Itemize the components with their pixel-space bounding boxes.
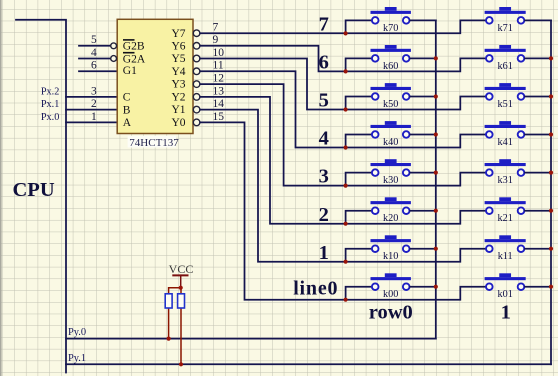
svg-text:k71: k71 [498, 23, 513, 34]
svg-text:74HCT137: 74HCT137 [129, 137, 179, 149]
pin name Y5 with inversion bubble [171, 53, 199, 65]
svg-text:row0: row0 [369, 301, 413, 323]
pin number 6 [91, 60, 97, 72]
junction k61 / column 1 [549, 56, 553, 60]
node label 4 [319, 128, 329, 150]
push button k61 [485, 45, 526, 72]
pin number 15 [213, 111, 225, 123]
wire CPU to pin 3 [66, 96, 118, 98]
svg-text:Px.0: Px.0 [41, 112, 59, 123]
junction k50 / column row0 [434, 94, 438, 98]
svg-text:Y6: Y6 [171, 40, 185, 52]
pin number 10 [213, 47, 225, 59]
pin name G1 (pin 6) [123, 65, 137, 77]
wire branch to k00 left terminal [346, 287, 372, 300]
wire Py.0 [66, 338, 436, 340]
junction row 3 branch [344, 184, 348, 188]
svg-text:5: 5 [91, 34, 97, 46]
pin name Y6 with inversion bubble [171, 40, 199, 52]
junction row 1 branch [344, 260, 348, 264]
svg-text:3: 3 [319, 166, 329, 188]
pin number 9 [213, 34, 219, 46]
svg-text:Y4: Y4 [171, 66, 185, 78]
svg-text:7: 7 [319, 14, 329, 36]
svg-text:k60: k60 [383, 61, 398, 72]
node label 6 [319, 52, 329, 74]
wire net row line0 from Y0 to keys [200, 122, 485, 299]
junction k10 / column row0 [434, 247, 438, 251]
pin name Y3 with inversion bubble [171, 79, 199, 91]
svg-text:Y5: Y5 [171, 53, 185, 65]
wire column row0 down to Py.0 [435, 20, 437, 338]
wire k41 right terminal to column 1 [525, 134, 551, 136]
net label Py.1 [68, 353, 86, 364]
node label 2 [319, 204, 329, 226]
svg-text:3: 3 [91, 85, 97, 97]
push button k20 [371, 197, 411, 224]
pin name C (pin 3) [123, 92, 131, 104]
svg-text:1: 1 [319, 242, 329, 264]
junction k00 / column row0 [434, 285, 438, 289]
wire branch to k20 left terminal [346, 211, 372, 224]
svg-text:Y3: Y3 [171, 79, 185, 91]
svg-text:k21: k21 [498, 213, 513, 224]
push button k50 [371, 83, 411, 110]
svg-text:line0: line0 [293, 278, 338, 300]
wire net row 4 from Y4 to keys [200, 71, 485, 147]
push button k71 [485, 7, 526, 34]
wire CPU to pin 1 [66, 121, 118, 123]
wire branch to k50 left terminal [346, 97, 372, 110]
svg-text:k10: k10 [383, 251, 398, 262]
push button k21 [485, 197, 526, 224]
junction k31 / column 1 [549, 171, 553, 175]
pin number 7 [213, 22, 219, 34]
junction row 7 branch [344, 31, 348, 35]
wire k10 right terminal to column row0 [410, 248, 436, 250]
svg-text:11: 11 [213, 60, 224, 72]
wire pin 4 stub [79, 58, 111, 60]
push button k41 [485, 121, 526, 148]
svg-text:Y0: Y0 [171, 117, 185, 129]
CPU label [13, 179, 55, 201]
push button k60 [371, 45, 411, 72]
wire net row 1 from Y1 to keys [200, 110, 485, 262]
push button k10 [371, 235, 411, 262]
pin number 3 [91, 85, 97, 97]
svg-text:Py.0: Py.0 [68, 327, 86, 338]
pin number 13 [213, 85, 225, 97]
wire CPU to pin 2 [66, 109, 118, 111]
svg-text:4: 4 [91, 47, 97, 59]
wire k61 right terminal to column 1 [525, 57, 551, 59]
part value 74HCT137 [128, 136, 180, 149]
pin name Y7 with inversion bubble [171, 28, 199, 40]
push button k01 [485, 273, 526, 300]
svg-text:k70: k70 [383, 23, 398, 34]
svg-text:15: 15 [213, 111, 225, 123]
wire k31 right terminal to column 1 [525, 172, 551, 174]
svg-text:G1: G1 [123, 65, 137, 77]
pin number 11 [213, 60, 224, 72]
svg-text:CPU: CPU [13, 179, 55, 201]
svg-text:k41: k41 [498, 137, 513, 148]
svg-text:5: 5 [319, 90, 329, 112]
svg-text:k31: k31 [498, 175, 513, 186]
wire k50 right terminal to column row0 [410, 96, 436, 98]
resistor R1 (pull-up to Py.0) [165, 294, 172, 339]
pin name A (pin 1) [123, 117, 132, 129]
pin number 5 [91, 34, 97, 46]
svg-text:A: A [123, 117, 132, 129]
svg-text:G2A: G2A [123, 53, 146, 65]
wire k40 right terminal to column row0 [410, 134, 436, 136]
wire branch to k30 left terminal [346, 173, 372, 186]
junction k30 / column row0 [434, 171, 438, 175]
svg-text:4: 4 [319, 128, 329, 150]
svg-text:k51: k51 [498, 99, 513, 110]
wire branch to k10 left terminal [346, 249, 372, 262]
wire VCC junction to left resistor [169, 288, 181, 294]
junction row 6 branch [344, 69, 348, 73]
junction k40 / column row0 [434, 132, 438, 136]
svg-text:G2B: G2B [123, 41, 145, 53]
svg-text:13: 13 [213, 85, 225, 97]
pin name Y2 with inversion bubble [171, 92, 199, 104]
junction k01 / column 1 [549, 285, 553, 289]
wire k21 right terminal to column 1 [525, 210, 551, 212]
pin name G2A with inversion bubble (pin 4) [111, 53, 146, 66]
wire k70 right terminal to column row0 [410, 19, 436, 21]
svg-text:k11: k11 [498, 251, 513, 262]
column label row0 [369, 301, 413, 323]
junction k41 / column 1 [549, 132, 553, 136]
svg-text:2: 2 [319, 204, 329, 226]
wire net row 7 from Y7 to keys [200, 20, 485, 33]
svg-text:B: B [123, 104, 131, 116]
push button k70 [371, 7, 411, 34]
wire k11 right terminal to column 1 [525, 248, 551, 250]
junction row 5 branch [344, 107, 348, 111]
junction k51 / column 1 [549, 94, 553, 98]
svg-text:C: C [123, 92, 131, 104]
pin name Y0 with inversion bubble [171, 117, 199, 129]
wire branch to k40 left terminal [346, 135, 372, 148]
resistor R2 (pull-up to Py.1) [178, 288, 185, 365]
svg-text:k40: k40 [383, 137, 398, 148]
svg-text:7: 7 [213, 22, 219, 34]
wire k20 right terminal to column row0 [410, 210, 436, 212]
svg-text:6: 6 [91, 60, 97, 72]
wire k71 right terminal to column 1 [525, 19, 551, 21]
pin number 4 [91, 47, 97, 59]
wire net row 5 from Y5 to keys [200, 59, 485, 110]
svg-text:k61: k61 [498, 61, 513, 72]
svg-text:10: 10 [213, 47, 225, 59]
pin number 12 [213, 73, 225, 85]
push button k00 [371, 273, 411, 300]
svg-text:6: 6 [319, 52, 329, 74]
push button k11 [485, 235, 526, 262]
junction R2 / Py.1 [179, 362, 183, 366]
pin name G2B with inversion bubble (pin 5) [111, 40, 145, 53]
node label 7 [319, 14, 329, 36]
junction k20 / column row0 [434, 209, 438, 213]
node label 3 [319, 166, 329, 188]
junction k11 / column 1 [549, 247, 553, 251]
svg-text:Px.1: Px.1 [41, 99, 59, 110]
wire k01 right terminal to column 1 [525, 286, 551, 288]
power symbol VCC [169, 262, 194, 288]
CPU block outline (wire) [16, 20, 66, 373]
junction VCC / resistors [179, 286, 183, 290]
svg-text:9: 9 [213, 34, 219, 46]
wire net row 6 from Y6 to keys [200, 46, 485, 72]
svg-text:k01: k01 [498, 289, 513, 300]
svg-text:Y1: Y1 [171, 104, 185, 116]
svg-text:k00: k00 [383, 289, 398, 300]
svg-text:1: 1 [91, 111, 97, 123]
svg-text:k30: k30 [383, 175, 398, 186]
svg-text:2: 2 [91, 98, 97, 110]
push button k30 [371, 159, 411, 186]
wire k51 right terminal to column 1 [525, 96, 551, 98]
svg-text:VCC: VCC [169, 262, 194, 276]
svg-text:Py.1: Py.1 [68, 353, 86, 364]
junction row line0 branch [344, 298, 348, 302]
svg-text:k50: k50 [383, 99, 398, 110]
wire net row 2 from Y2 to keys [200, 97, 485, 224]
wire Py.1 [66, 363, 551, 365]
node label 5 [319, 90, 329, 112]
pin number 14 [213, 98, 225, 110]
wire k60 right terminal to column row0 [410, 57, 436, 59]
svg-text:Y2: Y2 [171, 92, 185, 104]
wire net row 3 from Y3 to keys [200, 84, 485, 186]
net label Px.1 [41, 99, 59, 110]
net label Px.0 [41, 112, 59, 123]
wire pin 5 stub [79, 45, 111, 47]
net label Px.2 [41, 86, 59, 97]
pin name B (pin 2) [123, 104, 131, 116]
junction row 2 branch [344, 222, 348, 226]
wire branch to k70 left terminal [346, 20, 372, 33]
push button k51 [485, 83, 526, 110]
wire pin 6 stub [79, 70, 118, 72]
junction R1 / Py.0 [167, 337, 171, 341]
svg-text:Px.2: Px.2 [41, 86, 59, 97]
wire k30 right terminal to column row0 [410, 172, 436, 174]
pin name Y1 with inversion bubble [171, 104, 199, 116]
svg-text:12: 12 [213, 73, 225, 85]
svg-text:Y7: Y7 [171, 28, 185, 40]
pin number 2 [91, 98, 97, 110]
decoder U1 74HCT137 body [117, 19, 193, 133]
pin number 1 [91, 111, 97, 123]
node label line0 [293, 278, 338, 300]
wire branch to k60 left terminal [346, 58, 372, 71]
wire k00 right terminal to column row0 [410, 286, 436, 288]
column label 1 [501, 301, 511, 323]
svg-text:14: 14 [213, 98, 225, 110]
node label 1 [319, 242, 329, 264]
push button k40 [371, 121, 411, 148]
junction row 4 branch [344, 145, 348, 149]
junction k21 / column 1 [549, 209, 553, 213]
net label Py.0 [68, 327, 86, 338]
push button k31 [485, 159, 526, 186]
svg-text:k20: k20 [383, 213, 398, 224]
junction k60 / column row0 [434, 56, 438, 60]
svg-text:1: 1 [501, 301, 511, 323]
pin name Y4 with inversion bubble [171, 66, 199, 78]
wire column 1 down to Py.1 [550, 20, 552, 364]
